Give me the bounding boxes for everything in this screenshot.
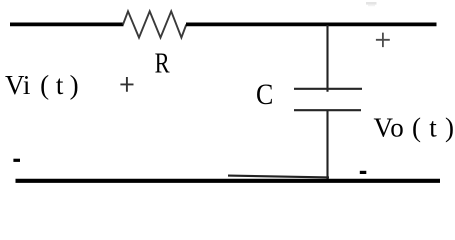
wire vertical from top wire to capacitor [326,25,328,92]
plus sign output polarity [376,33,390,48]
svg-text:Vi ( t ): Vi ( t ) [5,70,79,100]
wire top-left segment [10,23,124,27]
svg-text:R: R [155,48,170,79]
capacitor C top plate [294,88,362,90]
wire bottom thin overlap segment [228,176,329,178]
svg-text:C: C [256,79,273,111]
wire vertical from capacitor to bottom wire [326,110,328,181]
capacitor C bottom plate [294,109,361,111]
minus sign output polarity [360,171,367,174]
plus sign input polarity [120,77,133,92]
svg-text:Vo ( t ): Vo ( t ) [374,113,455,143]
resistor R [123,11,186,37]
minus sign input polarity [13,159,20,162]
wire bottom [16,179,441,183]
faint smudge artifact top right [366,2,377,5]
wire top-right segment [186,23,437,27]
